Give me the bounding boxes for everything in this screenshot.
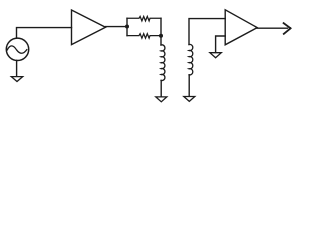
wire U1 output to node A [106,26,128,28]
wire node B down to inductor L1 [160,36,162,45]
ground under L2 [184,97,195,102]
resistor R1 (top branch) [127,16,161,21]
parallel block right vertical wire [160,18,162,35]
op-amp U2 [225,10,257,45]
AC voltage source V1 [6,38,28,60]
ground at U2 input [210,53,221,58]
wire from inductor L2 top to amp U2 input [189,19,225,45]
inductor L1 (transformer primary) [161,45,165,81]
ground under L1 [156,97,167,102]
inductor L2 (transformer secondary) [189,44,193,75]
wire L1 to ground [160,80,162,96]
wire V1 bottom stem [16,60,18,76]
ground under V1 [11,77,22,82]
op-amp U1 [72,10,106,45]
node B junction dot [159,34,163,38]
resistor R2 (bottom branch) [127,34,161,39]
wire U2 inverting input stub to ground [216,36,226,52]
node A junction dot [125,25,129,29]
wire L2 to ground [188,75,190,96]
parallel block left vertical wire [126,18,128,35]
wire from V1 top to amp U1 input [17,28,72,38]
output arrowhead [284,23,291,34]
output wire from U2 [257,27,287,29]
